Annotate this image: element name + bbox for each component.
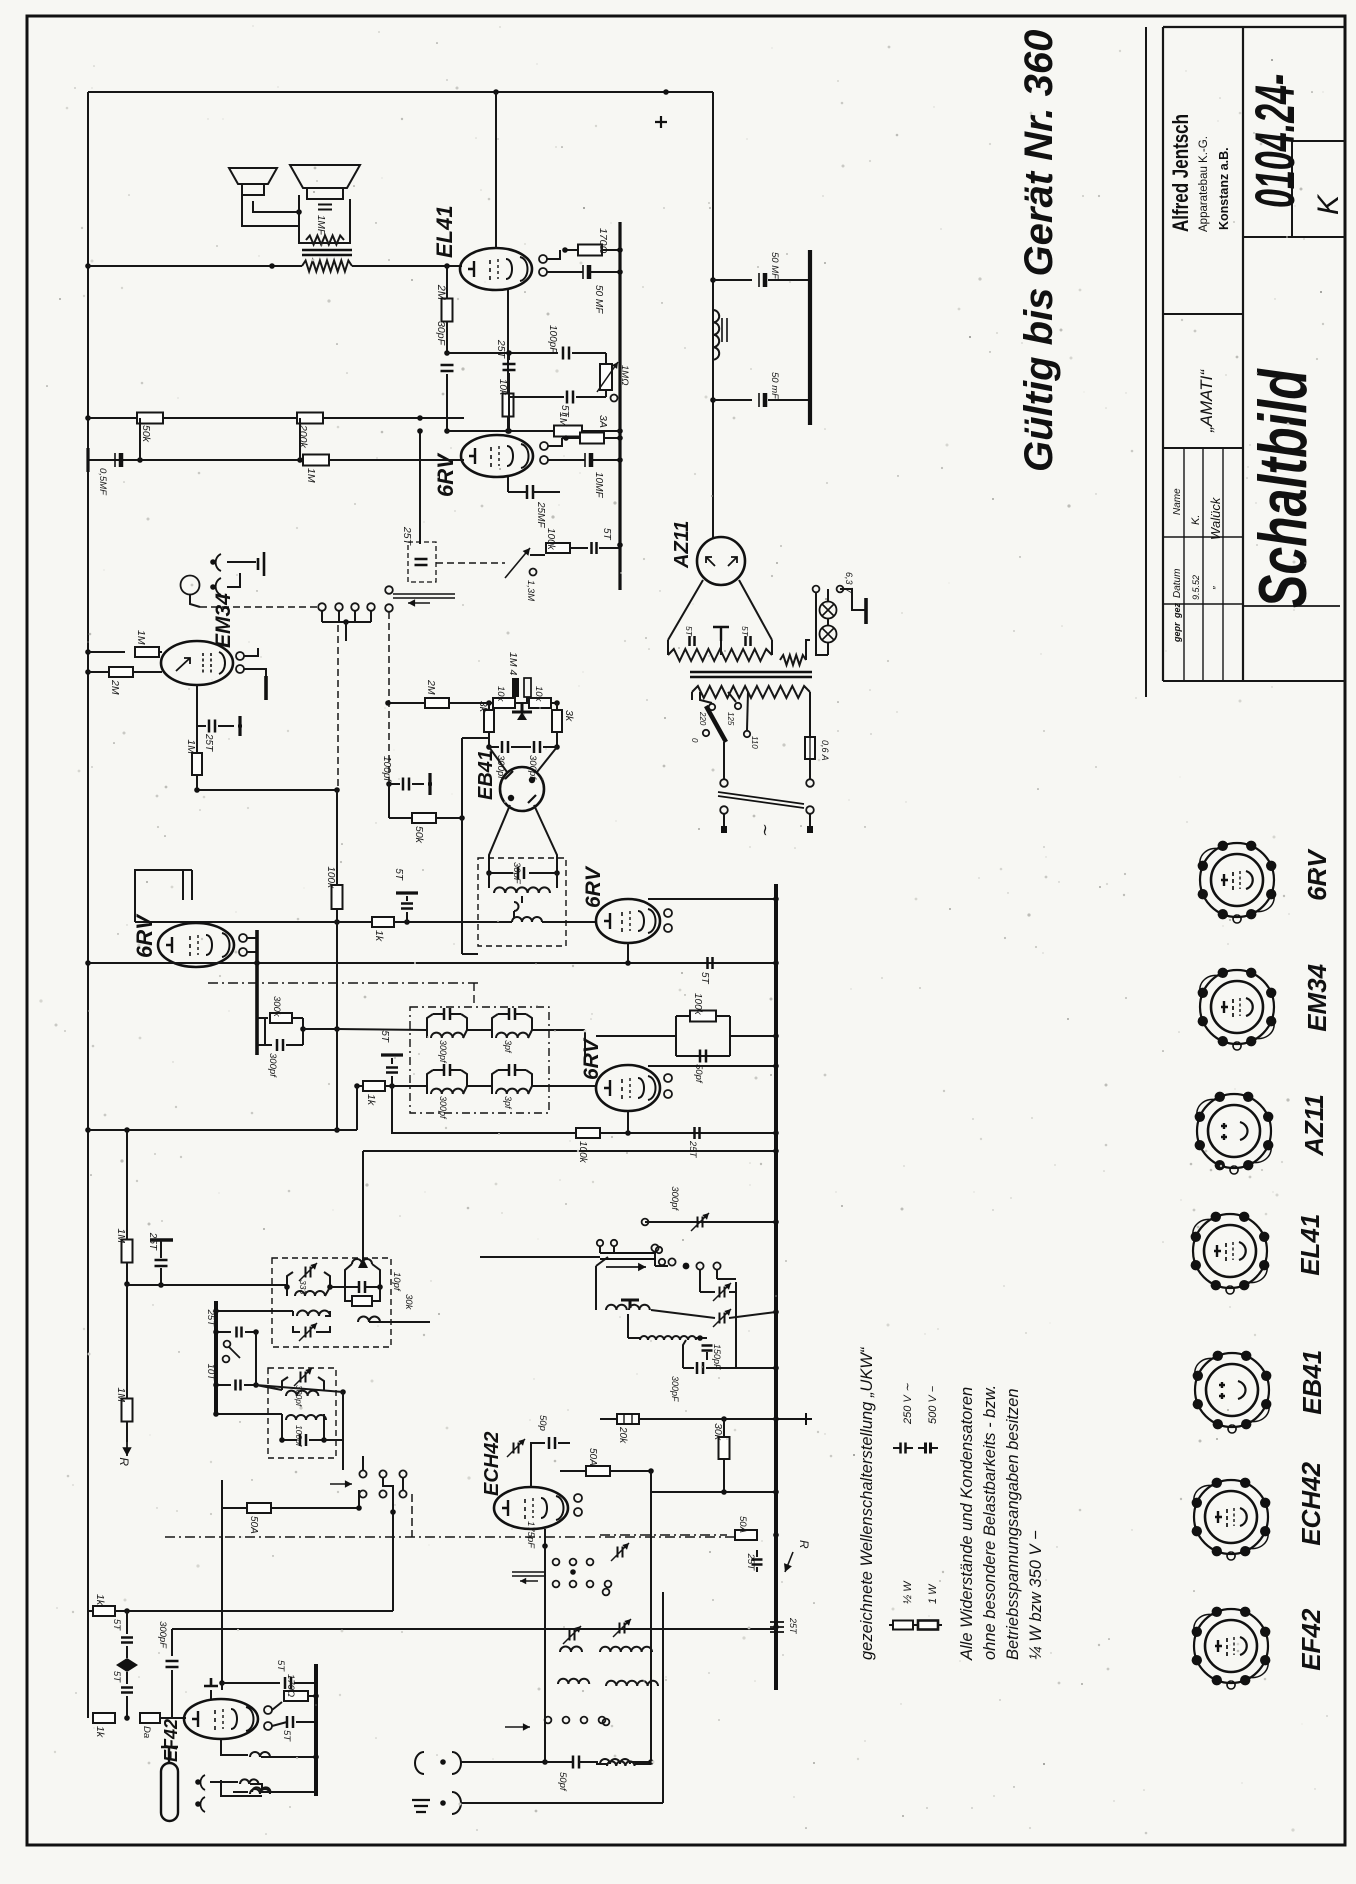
resistor 1M lower — [122, 1399, 133, 1422]
svg-text:ECH42: ECH42 — [1296, 1461, 1326, 1545]
resistor 3k left — [488, 703, 490, 710]
capacitor 300pF osc — [697, 1362, 703, 1374]
primary winding — [692, 686, 810, 698]
capacitor 5T EF42 — [287, 1716, 293, 1728]
svg-text:3A: 3A — [597, 415, 609, 428]
resistor 50k — [137, 413, 163, 424]
capacitor 50mF lower — [710, 397, 716, 403]
resistor 100k anode load — [773, 1033, 779, 1039]
wire detector feed — [461, 738, 463, 818]
resistor 1k lower — [93, 1713, 115, 1723]
heater pins — [664, 909, 672, 917]
svg-text:50pf: 50pf — [693, 1064, 704, 1084]
svg-text:125: 125 — [726, 712, 735, 726]
capacitor 10MF — [584, 453, 586, 467]
svg-text:R: R — [117, 1457, 131, 1466]
svg-text:5T: 5T — [111, 1619, 122, 1631]
wire 6RV1 plate loop — [135, 870, 192, 922]
capacitor 300pF — [171, 1629, 173, 1656]
wire rail 963 — [88, 962, 776, 964]
svg-text:5T: 5T — [699, 972, 710, 985]
svg-text:0,5MF: 0,5MF — [97, 468, 108, 496]
wire detector output line — [135, 921, 512, 923]
legend capacitor 250V — [901, 1443, 906, 1454]
svg-text:Gültig bis Gerät Nr. 360: Gültig bis Gerät Nr. 360 — [1017, 30, 1061, 472]
resistor 1M grid leak — [192, 753, 202, 775]
svg-text:10k: 10k — [533, 686, 544, 703]
svg-text:„AMATI“: „AMATI“ — [1197, 369, 1216, 433]
svg-text:EM34: EM34 — [212, 593, 235, 648]
resistor 1M — [554, 426, 582, 437]
svg-text:50 MF: 50 MF — [769, 252, 780, 280]
heater winding 4V — [780, 655, 806, 665]
wire AVC node line — [197, 789, 337, 791]
capacitor 5T pair and diamond — [126, 1611, 128, 1634]
tube 6RV IF amp 1 — [596, 1065, 660, 1111]
plus sign at top rail — [655, 116, 667, 128]
svg-text:Name: Name — [1172, 488, 1183, 515]
svg-text:EM34: EM34 — [1302, 963, 1332, 1031]
resistor 2M EM34 — [88, 671, 110, 673]
capacitor 10T — [216, 1384, 231, 1386]
svg-text:25T: 25T — [687, 1140, 698, 1159]
svg-text:3k: 3k — [563, 710, 575, 722]
tube EL41 — [460, 248, 532, 290]
svg-text:25T: 25T — [495, 339, 507, 360]
wire arrow into box top — [362, 1260, 364, 1268]
wire speaker network — [242, 195, 299, 226]
resistor 1M to rail — [126, 1130, 128, 1240]
tube AZ11 rectifier — [697, 537, 745, 585]
legend resistor 1 W — [918, 1621, 938, 1630]
wire EB41 cathode diagonals — [489, 805, 510, 873]
heater pins EM34 — [236, 652, 244, 660]
svg-text:300pf: 300pf — [669, 1186, 680, 1211]
svg-text:1M: 1M — [115, 1228, 127, 1243]
capacitor 5T ground at IF — [391, 1076, 393, 1086]
coil lower left osc — [607, 1761, 635, 1766]
wire osc bottom — [650, 1658, 652, 1762]
svg-text:25T: 25T — [203, 733, 214, 752]
switch and caps 25T — [216, 1331, 231, 1333]
tube 6RV audio driver — [461, 435, 533, 477]
svg-text:300pf: 300pf — [438, 1040, 448, 1064]
svg-text:300pf: 300pf — [438, 1096, 448, 1120]
osc coils row 2 — [558, 1679, 589, 1684]
wire transformer to EL41 anode — [352, 265, 462, 267]
svg-text:110: 110 — [750, 736, 759, 749]
wire antenna coupling — [210, 1781, 238, 1783]
svg-text:500 V −: 500 V − — [927, 1385, 939, 1424]
dashed box oscillator padder — [272, 1258, 391, 1347]
wire contact links — [402, 1478, 404, 1490]
svg-text:Datum: Datum — [1172, 569, 1183, 598]
svg-text:Alfred Jentsch: Alfred Jentsch — [1169, 114, 1194, 232]
earth symbol — [412, 1800, 430, 1812]
svg-text:1M: 1M — [185, 739, 197, 754]
capacitor 50MF electrolytic — [582, 265, 584, 279]
wire left bus vertical — [87, 92, 89, 1611]
tube socket EL41 (bottom view) — [1193, 1214, 1267, 1288]
output transformer primary winding — [302, 261, 352, 272]
wire switch contact column — [362, 1456, 364, 1470]
tube socket ECH42 (bottom view) — [1194, 1480, 1268, 1554]
svg-text:R: R — [797, 1540, 811, 1549]
wire rail to output transformer — [88, 265, 302, 267]
switch contacts rows — [359, 1470, 366, 1477]
coax connectors — [200, 1775, 205, 1812]
IF tank circuits — [427, 1014, 433, 1030]
tube 6RV IF amp 2 — [596, 899, 660, 943]
ground bar 6RV1 — [255, 930, 259, 1055]
capacitor 25T grid — [508, 353, 510, 360]
resistor 50k det — [412, 813, 436, 823]
svg-text:3pf: 3pf — [503, 1096, 513, 1110]
wire dashed link wiper — [388, 612, 390, 784]
wire 50k drop — [221, 1480, 223, 1683]
svg-text:100pF: 100pF — [547, 325, 558, 354]
tube socket AZ11 (bottom view) — [1197, 1094, 1271, 1168]
wire EB41 top network — [489, 702, 493, 704]
wire plus terminal — [776, 1418, 800, 1420]
svg-text:3pf: 3pf — [503, 1040, 513, 1054]
svg-text:1,3M: 1,3M — [525, 580, 536, 601]
name/date grid — [1183, 448, 1185, 681]
oscillator trimmer 300pf row — [645, 1221, 776, 1223]
wire AVC line down — [336, 790, 338, 884]
svg-text:25MF: 25MF — [535, 501, 546, 528]
svg-text:EB41: EB41 — [1297, 1350, 1327, 1415]
svg-text:25T: 25T — [147, 1232, 158, 1251]
capacitor 25T in dashed box — [408, 542, 436, 582]
svg-text:25T: 25T — [401, 526, 413, 547]
svg-text:ECH42: ECH42 — [481, 1432, 503, 1496]
resistor 100k — [546, 543, 570, 553]
svg-text:100k: 100k — [325, 866, 336, 889]
svg-text:1MΩ: 1MΩ — [619, 365, 630, 385]
wire anode drop from top rail — [495, 92, 497, 249]
oscillator trimmers — [720, 1287, 725, 1298]
oscillator switch contacts — [651, 1244, 658, 1251]
svg-text:10k: 10k — [497, 379, 508, 396]
svg-text:EF42: EF42 — [1296, 1608, 1326, 1671]
wire rail B to right bus — [392, 1086, 776, 1133]
wire top B+ rail — [88, 91, 713, 93]
wire B+ drop to rectifier — [712, 92, 714, 538]
svg-text:150pF: 150pF — [712, 1344, 722, 1370]
svg-text:10k: 10k — [495, 686, 506, 703]
ground cap 25T right — [770, 1622, 784, 1632]
coil IF osc 7 loops — [640, 1336, 696, 1340]
wire selector to switch — [723, 742, 725, 779]
svg-text:1M: 1M — [115, 1387, 127, 1402]
wires IF box top row — [337, 1029, 427, 1030]
svg-text:Konstanz a.B.: Konstanz a.B. — [1217, 147, 1231, 230]
svg-text:¼ W bzw 350 V −: ¼ W bzw 350 V − — [1027, 1530, 1045, 1660]
svg-text:0: 0 — [690, 738, 699, 743]
svg-text:30pF: 30pF — [435, 321, 447, 346]
resistor 30k — [723, 1419, 725, 1437]
wire dashdot vertical — [411, 1494, 413, 1537]
tank 300pf upper — [282, 1377, 288, 1390]
svg-text:5T: 5T — [740, 626, 750, 637]
svg-text:5T: 5T — [111, 1671, 122, 1683]
feedback network 300k 300pf — [257, 1017, 268, 1019]
svg-text:1MF: 1MF — [315, 215, 326, 236]
wire to oscillator box — [127, 1284, 287, 1286]
capacitor 25T with ground — [150, 1238, 173, 1241]
svg-text:5T: 5T — [684, 626, 694, 637]
capacitor 5T series rail — [708, 957, 713, 969]
antenna dipole symbol — [161, 1763, 178, 1821]
capacitor 25T rail B — [695, 1127, 700, 1139]
svg-text:6RV: 6RV — [582, 865, 605, 908]
svg-text:5T: 5T — [275, 1660, 286, 1672]
wire EM34 cathode down — [196, 685, 198, 790]
svg-text:gez: gez — [1172, 602, 1182, 619]
svg-text:170Ω: 170Ω — [285, 1674, 296, 1697]
resistor 1M EB41 load — [512, 678, 519, 697]
heater pins 6RV — [540, 442, 548, 450]
svg-text:10pf: 10pf — [391, 1272, 402, 1292]
arrow osc — [512, 1572, 545, 1576]
tube EF42 — [184, 1699, 258, 1739]
svg-text:100k: 100k — [545, 528, 556, 551]
trimmer osc — [618, 1547, 623, 1558]
osc switch contacts — [553, 1559, 560, 1566]
capacitor 100pF to ground — [386, 781, 392, 787]
wire down to R arrow — [126, 1285, 128, 1400]
HT winding with taps — [668, 649, 772, 661]
svg-text:2M: 2M — [109, 679, 121, 695]
resistor Da — [140, 1713, 160, 1723]
svg-text:5T: 5T — [281, 1730, 292, 1742]
osc coils row 1 — [560, 1647, 582, 1653]
svg-text:EL41: EL41 — [432, 205, 457, 258]
svg-text:5T: 5T — [559, 405, 570, 418]
tank 100pf lower — [286, 1415, 326, 1420]
wire 6RV3 cathode — [627, 1111, 629, 1133]
resistor 50A anode — [560, 1470, 586, 1472]
svg-text:1k: 1k — [373, 930, 385, 942]
svg-text:0,6 A: 0,6 A — [820, 740, 830, 761]
svg-text:300k: 300k — [271, 996, 282, 1018]
connector arcs — [216, 554, 221, 595]
svg-text:50 mF: 50 mF — [769, 372, 780, 400]
svg-text:30pF: 30pF — [511, 862, 522, 885]
wire mixer grid from filter — [342, 1392, 344, 1440]
svg-text:1k: 1k — [94, 1594, 106, 1606]
resistor speaker network — [306, 236, 344, 245]
filter choke — [713, 310, 719, 360]
tank2 coil with trimmer — [297, 1311, 330, 1317]
resistor 10k left — [493, 698, 515, 708]
coil with ground tap — [606, 1305, 627, 1310]
svg-text:K.: K. — [1190, 515, 1202, 525]
svg-text:Schaltbild: Schaltbild — [1245, 368, 1321, 608]
svg-text:250 V ∼: 250 V ∼ — [902, 1382, 914, 1425]
resistor 100k AVC — [332, 885, 343, 909]
svg-text:Walück: Walück — [1208, 496, 1223, 540]
svg-text:0104.24-: 0104.24- — [1243, 74, 1306, 208]
svg-text:50k: 50k — [413, 826, 425, 844]
output transformer core — [302, 250, 352, 255]
wire UKW antenna input — [415, 1752, 424, 1774]
svg-text:1 W: 1 W — [927, 1583, 939, 1604]
tube ECH42 — [494, 1487, 568, 1529]
resistor 3A heater — [580, 433, 604, 444]
svg-text:Alle Widerstände und Kondensat: Alle Widerstände und Kondensatoren — [958, 1387, 976, 1661]
svg-text:2M: 2M — [435, 284, 447, 301]
svg-text:9.5.52: 9.5.52 — [1191, 575, 1201, 600]
svg-text:30k: 30k — [403, 1294, 414, 1311]
tube EM34 magic eye — [161, 641, 233, 685]
resistor 50k top — [247, 1503, 271, 1513]
coil second EF42 — [233, 1791, 248, 1793]
svg-text:100pf: 100pf — [381, 756, 392, 782]
wire wiper to 50k — [388, 784, 390, 818]
svg-text:3k: 3k — [477, 701, 489, 713]
capacitor 50pF osc — [531, 1443, 545, 1487]
svg-text:5T: 5T — [379, 1030, 390, 1043]
voltage selector taps — [709, 704, 715, 710]
terminal R with arrow — [126, 1442, 128, 1456]
svg-text:1M: 1M — [305, 468, 317, 483]
svg-text:20k: 20k — [617, 1426, 628, 1444]
wire dash link to volume pot — [436, 562, 505, 564]
heater pins EL41 — [539, 255, 547, 263]
loudspeaker LS2 — [290, 165, 360, 188]
svg-text:220: 220 — [698, 711, 707, 726]
ground chassis lamp — [852, 609, 866, 611]
coil link winding — [512, 917, 542, 922]
wire grid rail EF42 — [88, 1610, 393, 1612]
wire rail 1629 — [172, 1628, 776, 1630]
svg-text:6RV: 6RV — [580, 1037, 603, 1080]
svg-text:∼: ∼ — [756, 822, 773, 836]
heater pins — [239, 934, 247, 942]
svg-text:AZ11: AZ11 — [1299, 1094, 1329, 1157]
svg-text:6RV: 6RV — [132, 913, 157, 958]
wire EL41 screen rail — [88, 417, 464, 419]
dial pointer line — [480, 1256, 600, 1258]
svg-text:200k: 200k — [297, 424, 309, 449]
wire bus right thick — [774, 884, 778, 1690]
wire coupling line 100pF — [447, 352, 558, 354]
legend resistor half W — [893, 1621, 913, 1630]
svg-text:50 MF: 50 MF — [593, 285, 604, 314]
capacitor 150pF — [702, 1346, 713, 1351]
capacitor 50pF antenna — [573, 1756, 579, 1769]
svg-text:50pf: 50pf — [557, 1772, 568, 1792]
legend capacitor 500V — [926, 1443, 931, 1454]
resistor 20k — [617, 1414, 639, 1424]
svg-text:1M 4: 1M 4 — [507, 652, 519, 676]
capacitor 5T to ground — [406, 912, 408, 922]
resistor 200k — [297, 413, 323, 424]
resistor 2M — [446, 266, 448, 299]
svg-text:Apparatebau K.-G.: Apparatebau K.-G. — [1198, 136, 1210, 232]
ground bar EF42 — [314, 1664, 318, 1796]
capacitor 0.5MF and resistor 1M row — [88, 459, 140, 461]
wire osc verticals — [544, 1546, 546, 1762]
svg-text:1k: 1k — [94, 1726, 106, 1738]
ground bar EM34 — [264, 676, 268, 700]
capacitors 5T HV — [690, 636, 695, 646]
svg-text:50p: 50p — [537, 1415, 548, 1431]
wire pot line into box — [330, 1286, 345, 1288]
trimmer at mixer — [514, 1443, 519, 1454]
osc switch row 2 — [545, 1717, 552, 1724]
capacitor 1MF — [299, 195, 350, 243]
svg-text:300pF: 300pF — [157, 1621, 168, 1649]
svg-text:1M: 1M — [135, 630, 147, 645]
ground bar band switch — [214, 1301, 218, 1414]
phono jack — [181, 576, 200, 595]
svg-text:gezeichnete Wellenschalterste: gezeichnete Wellenschalterstellung „UKW“ — [858, 1346, 876, 1660]
potentiometer 1M volume — [600, 364, 612, 390]
wire AZ11 anodes — [668, 580, 703, 640]
resistor 1k — [372, 917, 394, 927]
wire bottom feed — [216, 1413, 282, 1415]
grid cap EF42 — [204, 1678, 218, 1686]
dash link to 50A — [600, 1534, 727, 1536]
svg-text:½ W: ½ W — [902, 1580, 914, 1604]
mains switch — [720, 779, 728, 787]
wire switch feed — [358, 1490, 360, 1508]
volume pot wiper — [385, 586, 393, 594]
wires IF box bottom row — [392, 1085, 427, 1087]
mechanical link dash-dot — [208, 982, 480, 984]
resistor 1M EM34 — [88, 651, 125, 653]
svg-text:25T: 25T — [205, 1309, 216, 1328]
capacitor 5T at EF42 anode — [222, 1682, 280, 1684]
tube EB41 diode — [500, 767, 544, 811]
transformer core power — [690, 672, 812, 677]
svg-text:175pF: 175pF — [525, 1521, 536, 1549]
ground bar power — [808, 250, 812, 425]
switch contacts — [318, 603, 326, 611]
resistor 170 Ohm — [578, 245, 602, 256]
wire grid network line — [447, 430, 620, 432]
resistor 10k right — [529, 698, 551, 708]
wire 6RV3 anode top — [648, 1065, 776, 1067]
svg-text:50k: 50k — [140, 425, 152, 443]
heater pins ECH42 — [574, 1494, 582, 1502]
IF secondary coil — [488, 873, 490, 888]
svg-text:5T: 5T — [601, 528, 612, 541]
capacitor 50MF upper — [710, 277, 716, 283]
wire osc section — [544, 1529, 546, 1546]
svg-text:″: ″ — [1212, 586, 1223, 590]
resistor 3k right — [556, 703, 558, 710]
wire grid row 1k 5T — [357, 1085, 362, 1087]
svg-text:5T: 5T — [393, 868, 404, 881]
svg-text:AZ11: AZ11 — [671, 521, 693, 569]
capacitor 300pf left — [489, 746, 499, 748]
svg-text:50A: 50A — [248, 1516, 259, 1534]
svg-text:25T: 25T — [745, 1553, 756, 1572]
loudspeaker LS1 — [229, 168, 277, 184]
capacitor 25T EM34 — [197, 725, 206, 727]
center tap — [713, 627, 729, 641]
svg-text:Da: Da — [141, 1726, 152, 1738]
resistor 100k rail B — [576, 1128, 600, 1138]
wire EM34 drive line 2M — [388, 702, 425, 704]
capacitor 100pF — [563, 347, 569, 360]
wire rail C — [363, 1150, 776, 1152]
arrow switch — [330, 1483, 352, 1485]
